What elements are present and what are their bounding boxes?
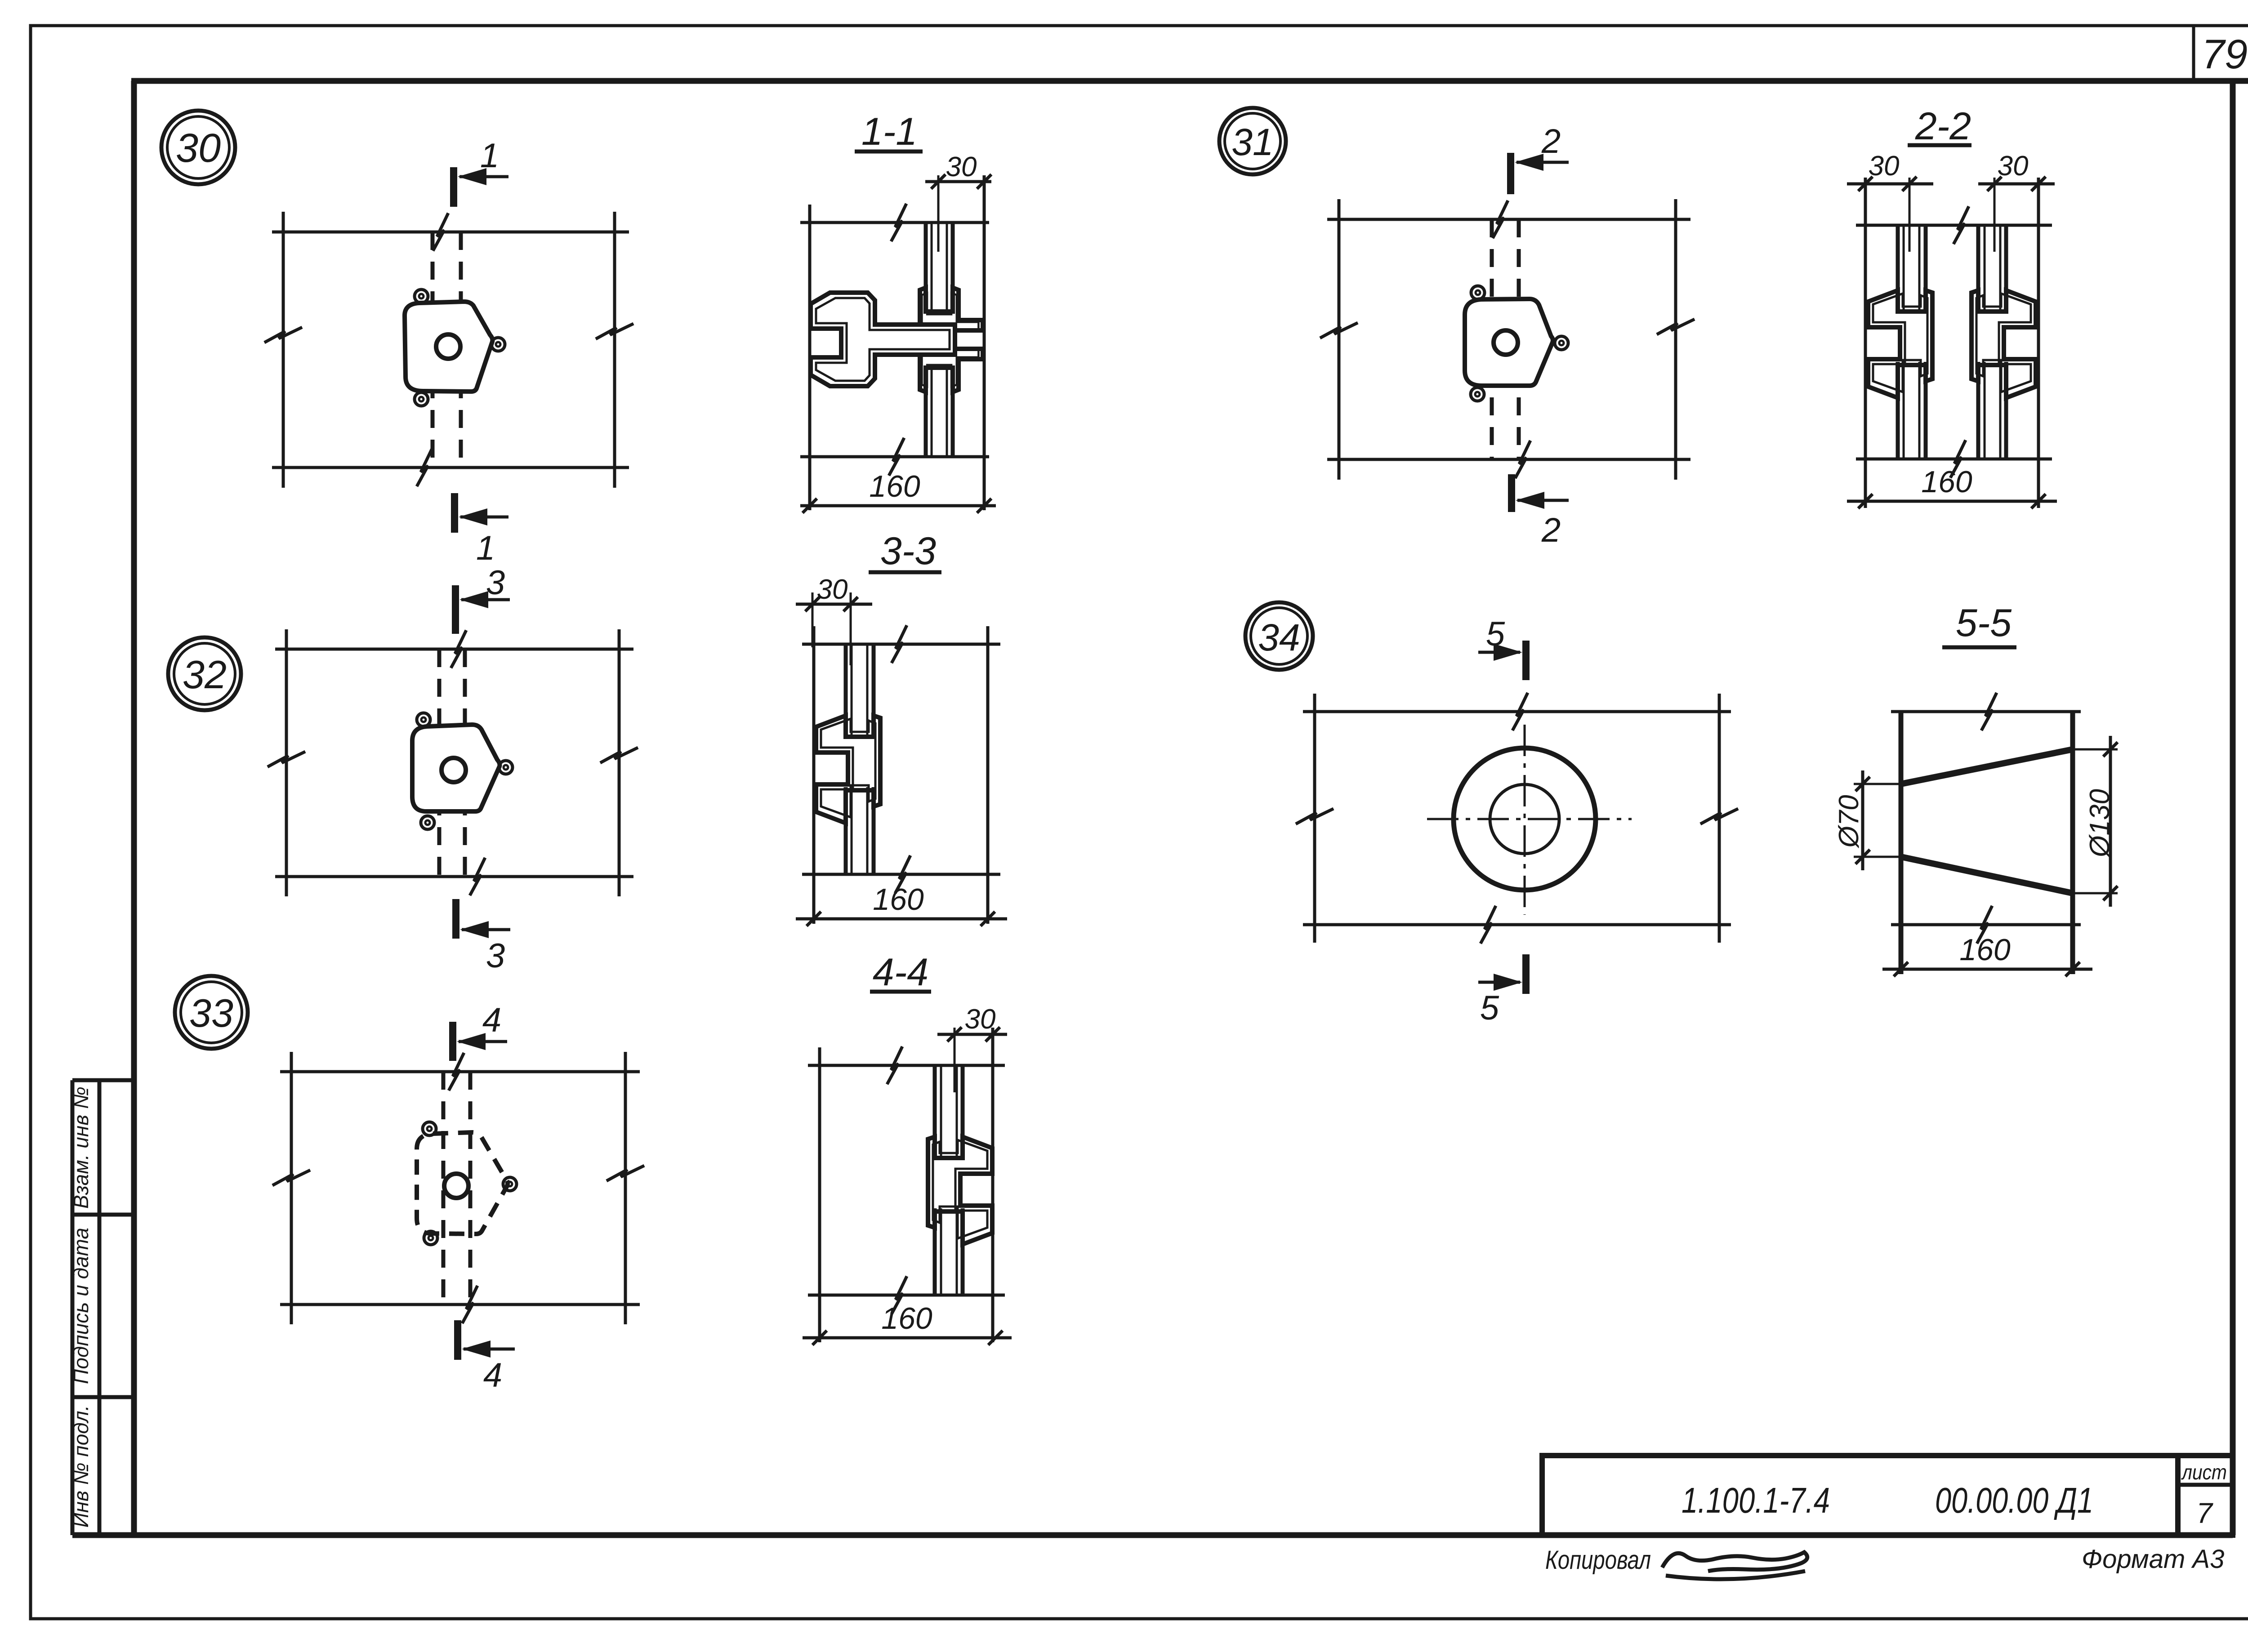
left joint profile section 2-2 [1868, 290, 1932, 398]
joint profile section 4-4 [928, 1137, 992, 1244]
svg-text:2-2: 2-2 [1915, 105, 1971, 148]
centre lines detail 34 [1427, 818, 1632, 820]
svg-text:7: 7 [2196, 1497, 2213, 1529]
svg-text:30: 30 [946, 151, 977, 183]
svg-text:1-1: 1-1 [861, 110, 917, 153]
section cut mark 4 bottom [454, 1320, 461, 1360]
section cut mark 2 top [1507, 153, 1514, 194]
left stamp divider 2 [72, 1395, 134, 1399]
clamp hole detail 30 [436, 334, 460, 359]
svg-text:30: 30 [176, 126, 221, 171]
right joint profile section 2-2 [1971, 290, 2036, 398]
bolt bottom detail 33 [424, 1231, 437, 1245]
svg-text:Ø70: Ø70 [1833, 795, 1864, 848]
section cut mark 3 bottom [452, 899, 459, 939]
clamp hole detail 32 [442, 758, 466, 782]
main drawing frame left edge [131, 81, 137, 1535]
svg-text:34: 34 [1258, 616, 1300, 659]
svg-text:5: 5 [1486, 615, 1505, 653]
SECTION 4-4 [803, 951, 1012, 1345]
left stamp column outer line [71, 1080, 75, 1535]
clamp plate detail 31 [1465, 299, 1553, 386]
DETAIL 34 [1245, 602, 1738, 1027]
DETAIL 32 [168, 564, 638, 975]
SECTION 5-5 [1833, 601, 2118, 976]
joint seam dashed lines detail 30 [431, 232, 435, 468]
detail bubble 30 [161, 111, 235, 184]
SECTION 1-1 [800, 110, 996, 513]
bolt right detail 30 [491, 338, 505, 351]
svg-text:160: 160 [873, 882, 924, 917]
svg-text:Подпись и дата: Подпись и дата [69, 1228, 93, 1384]
sealant panel top section 3-3 [844, 644, 848, 735]
sealant panels left section 2-2 [1896, 225, 1900, 310]
detail bubble 32 [168, 637, 241, 710]
title block outline [1542, 1456, 2233, 1535]
svg-text:31: 31 [1231, 121, 1273, 163]
clamp hole detail 33 [444, 1174, 468, 1198]
conical hole upper edge section 5-5 [1901, 749, 2073, 784]
joint seam dashed lines detail 32 [437, 649, 442, 877]
dimension 160 section 3-3 [796, 917, 1007, 921]
conical hole lower edge section 5-5 [1901, 857, 2073, 893]
dimension dia 70 section 5-5 [1861, 770, 1864, 870]
detail bubble 31 [1219, 108, 1286, 174]
left stamp divider 1 [72, 1213, 134, 1217]
svg-text:лист: лист [2181, 1461, 2227, 1484]
clamp plate detail 30 [405, 302, 492, 392]
dimension 160 section 1-1 [800, 504, 996, 508]
svg-text:2: 2 [1541, 511, 1561, 549]
svg-text:30: 30 [965, 1004, 996, 1035]
svg-text:4: 4 [482, 1001, 501, 1039]
bolt top detail 30 [415, 289, 428, 303]
section cut mark 5 bottom [1522, 954, 1530, 994]
dimension 160 section 5-5 [1882, 968, 2092, 971]
sealant panel bottom section 3-3 [844, 787, 848, 874]
footer signature underline [1666, 1571, 1805, 1579]
wall band section 5-5 [1891, 710, 2081, 713]
joint seam dashed lines detail 33 [442, 1072, 446, 1305]
left stamp column divider [98, 1080, 102, 1535]
svg-text:160: 160 [881, 1301, 932, 1336]
sealant panel top section 1-1 [924, 223, 928, 312]
svg-text:5-5: 5-5 [1956, 601, 2012, 645]
section cut mark 5 top [1522, 641, 1530, 680]
wall band detail 31 [1327, 218, 1690, 221]
bolt right detail 32 [499, 761, 513, 774]
sealant panel bottom section 1-1 [924, 368, 928, 457]
clamp plate detail 32 [412, 725, 500, 811]
svg-text:1: 1 [476, 529, 495, 567]
section cut mark 1 top [450, 167, 457, 207]
svg-text:30: 30 [1869, 151, 1900, 182]
dimension 160 section 2-2 [1847, 500, 2057, 503]
title block list cell split [2178, 1483, 2233, 1487]
svg-text:Инв № подл.: Инв № подл. [69, 1405, 93, 1528]
left stamp top edge [72, 1078, 134, 1082]
main drawing frame top edge [131, 78, 2248, 84]
svg-text:30: 30 [1998, 151, 2029, 182]
page number box divider [2192, 26, 2195, 81]
detail bubble 33 [175, 976, 248, 1049]
DETAIL 30 [161, 111, 633, 567]
svg-text:33: 33 [189, 991, 233, 1035]
bolt bottom detail 31 [1471, 387, 1484, 401]
wall band detail 33 [280, 1070, 640, 1073]
wall band section 2-2 [1856, 224, 2052, 227]
svg-text:3: 3 [486, 564, 505, 602]
hidden clamp plate detail 33 [417, 1132, 508, 1234]
dimension 160 section 4-4 [803, 1336, 1012, 1340]
wall band section 4-4 [808, 1064, 1005, 1067]
svg-text:32: 32 [183, 652, 227, 697]
svg-text:1.100.1-7.4: 1.100.1-7.4 [1682, 1480, 1830, 1520]
svg-text:Формат А3: Формат А3 [2082, 1545, 2224, 1574]
svg-text:00.00.00 Д1: 00.00.00 Д1 [1935, 1480, 2093, 1520]
svg-text:4: 4 [483, 1356, 502, 1394]
svg-text:3: 3 [486, 937, 505, 975]
SECTION 2-2 [1847, 105, 2057, 508]
SECTION 3-3 [796, 530, 1007, 926]
wall band detail 30 [272, 231, 629, 234]
svg-text:160: 160 [869, 469, 920, 503]
sealant panels right section 2-2 [1976, 225, 1980, 310]
svg-text:2: 2 [1541, 122, 1561, 160]
wall band section 3-3 [802, 643, 1000, 646]
hole outer circle detail 34 [1454, 748, 1596, 890]
svg-text:160: 160 [1959, 933, 2011, 967]
main drawing frame bottom edge [72, 1532, 2233, 1538]
clamp hole detail 31 [1494, 330, 1518, 355]
hole inner circle detail 34 [1490, 784, 1559, 854]
bolt bottom detail 32 [421, 816, 434, 829]
detail bubble 34 [1245, 602, 1313, 670]
section cut mark 4 top [449, 1022, 456, 1061]
DETAIL 33 [175, 976, 644, 1394]
wall band detail 34 [1303, 710, 1731, 713]
wall band section 1-1 [800, 221, 989, 224]
bolt top detail 31 [1471, 286, 1485, 299]
title block list divider [2175, 1456, 2181, 1535]
bolt right detail 31 [1555, 336, 1568, 350]
bolt top detail 33 [423, 1122, 436, 1135]
bolt top detail 32 [417, 713, 430, 726]
svg-text:1: 1 [480, 137, 499, 175]
right joint profile section 1-1 [920, 288, 983, 392]
dimension dia 130 section 5-5 [2109, 736, 2112, 907]
DETAIL 31 [1219, 108, 1695, 549]
svg-text:30: 30 [817, 574, 848, 605]
joint seam dashed lines detail 31 [1490, 219, 1494, 459]
section cut mark 3 top [452, 585, 459, 634]
main drawing frame right edge [2230, 81, 2236, 1535]
footer signature [1662, 1552, 1807, 1571]
svg-text:160: 160 [1921, 465, 1972, 499]
svg-text:Взам. инв №: Взам. инв № [69, 1086, 93, 1209]
svg-text:4-4: 4-4 [873, 951, 928, 994]
bolt right detail 33 [503, 1177, 517, 1191]
bolt bottom detail 30 [415, 392, 428, 406]
left joint profile section 1-1 [811, 293, 955, 386]
svg-text:3-3: 3-3 [880, 530, 936, 573]
sealant panel top section 4-4 [933, 1065, 937, 1157]
svg-text:Копировал: Копировал [1545, 1545, 1651, 1575]
section cut mark 1 bottom [451, 493, 458, 533]
wall band detail 32 [275, 648, 633, 651]
svg-text:5: 5 [1480, 989, 1499, 1027]
sealant panel bottom section 4-4 [933, 1208, 937, 1295]
svg-text:79: 79 [2202, 31, 2248, 77]
section cut mark 2 bottom [1508, 474, 1515, 512]
svg-text:Ø130: Ø130 [2084, 789, 2115, 858]
joint profile section 3-3 [816, 716, 880, 823]
